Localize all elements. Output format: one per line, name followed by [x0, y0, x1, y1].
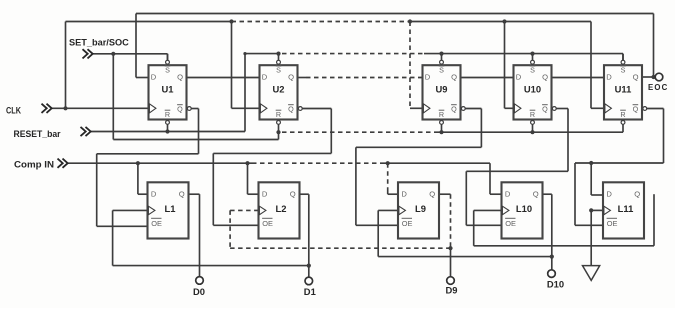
flip-flop U2	[260, 65, 298, 119]
svg-text:D: D	[516, 73, 522, 82]
svg-text:Q: Q	[633, 73, 639, 82]
wire RESET riser to S bus	[243, 52, 278, 132]
flip-flop U1	[149, 65, 187, 119]
off-page triangle symbol	[583, 266, 600, 281]
svg-text:Q: Q	[451, 104, 457, 113]
svg-text:EOC: EOC	[648, 83, 669, 92]
R-bar pin stub of U10	[531, 121, 535, 133]
wire Q of U1 to D of U2	[187, 77, 260, 79]
svg-text:U2: U2	[273, 84, 285, 95]
S-bar pin stub of U10	[531, 54, 535, 64]
wire feedback top rail (EOC node to D of U1)	[136, 14, 654, 78]
svg-text:R: R	[530, 110, 535, 119]
svg-text:D: D	[401, 189, 407, 198]
wire Comp IN line with taps to latch D inputs	[68, 162, 490, 164]
svg-text:L11: L11	[618, 203, 634, 214]
svg-text:D: D	[425, 73, 431, 82]
svg-text:R: R	[439, 110, 444, 119]
R-bar pin stub of U2	[277, 121, 281, 133]
svg-text:U1: U1	[162, 84, 174, 95]
svg-text:S: S	[530, 66, 535, 75]
wire enable of L1 from D1 rail	[113, 210, 309, 265]
flip-flop U9	[423, 65, 461, 119]
wire R bus (R of U2,U9,U10,U11)	[276, 130, 623, 134]
terminal D1	[305, 277, 313, 285]
svg-text:OE: OE	[505, 219, 516, 228]
input CLK	[6, 104, 52, 116]
svg-text:S: S	[165, 66, 170, 75]
svg-text:Q: Q	[533, 189, 539, 198]
svg-text:Comp IN: Comp IN	[14, 160, 54, 170]
node Comp IN tap L9 / dashed drop to D of L9	[386, 161, 398, 194]
svg-text:U10: U10	[524, 84, 541, 95]
wire enable of L9 from D10 rail	[378, 210, 552, 256]
svg-text:L10: L10	[516, 203, 532, 214]
S-bar pin stub of U2	[277, 54, 281, 64]
node tap on U11 Q-bar line / wire to D of L11	[589, 161, 603, 195]
wire enable of L2 dashed rail toward omitted stage	[230, 210, 450, 248]
wire CLK top bus	[66, 22, 592, 109]
svg-text:U11: U11	[615, 84, 632, 95]
wire Q of L9 to terminal D9 (dashed upper)	[439, 194, 453, 277]
R-bar pin stub of U11	[621, 121, 625, 133]
node Comp IN tap L1 / wire to D of L1	[136, 161, 148, 194]
wire Q-bar of U2 to OE of L2	[213, 107, 331, 226]
svg-text:S: S	[276, 66, 281, 75]
svg-text:R: R	[620, 110, 625, 119]
flip-flop U11	[604, 65, 642, 119]
wire Q of U11 to EOC	[642, 75, 656, 79]
svg-text:Q: Q	[451, 73, 457, 82]
svg-text:OE: OE	[151, 219, 162, 228]
svg-text:D: D	[262, 189, 268, 198]
svg-text:R: R	[165, 110, 170, 119]
input RESET_bar	[14, 127, 91, 139]
svg-text:Q: Q	[179, 189, 185, 198]
wire Q-bar of U9 to OE of L9	[356, 107, 482, 226]
S-bar pin stub of U1	[166, 54, 170, 64]
terminal D9	[447, 277, 455, 285]
wire SET_bar/SOC input to S of U1	[93, 54, 168, 60]
svg-text:D10: D10	[547, 279, 564, 290]
svg-text:U9: U9	[436, 84, 448, 95]
svg-text:Q: Q	[634, 189, 640, 198]
latch L1	[148, 182, 189, 238]
wire Q-bar of U1 to OE of L1	[97, 107, 199, 227]
node CLK bus junction U9 (dashed drop)	[408, 19, 423, 108]
svg-text:OE: OE	[262, 219, 273, 228]
latch L10	[502, 182, 543, 238]
wire S bus (S of U2,U9,U10,U11)	[276, 52, 623, 61]
wire Q of L2 to terminal D1	[300, 194, 311, 277]
latch L2	[259, 182, 300, 238]
wire Q of U10 to D of U11	[552, 77, 605, 79]
svg-text:Q: Q	[429, 189, 435, 198]
S-bar pin stub of U11	[621, 54, 625, 64]
svg-text:D: D	[262, 73, 268, 82]
svg-text:OE: OE	[607, 219, 618, 228]
svg-text:Q: Q	[177, 73, 183, 82]
node SET junction	[111, 52, 115, 56]
S-bar pin stub of U9	[440, 54, 444, 64]
svg-text:Q: Q	[288, 104, 294, 113]
svg-text:Q: Q	[542, 73, 548, 82]
wire Q-bar of U10 to OE of L10	[466, 107, 568, 226]
node CLK bus junction U10	[502, 19, 513, 108]
svg-text:L9: L9	[415, 203, 426, 214]
svg-text:CLK: CLK	[6, 106, 21, 116]
node Comp IN tap L2 / wire to D of L2	[245, 161, 258, 194]
latch L11	[603, 182, 644, 238]
wire RESET_bar input to R of U1	[91, 129, 245, 133]
input Comp IN	[14, 159, 68, 170]
svg-text:Q: Q	[290, 189, 296, 198]
latch L9	[398, 182, 439, 238]
R-bar pin stub of U9	[440, 121, 444, 133]
svg-text:Q: Q	[633, 104, 639, 113]
svg-text:L2: L2	[276, 203, 287, 214]
svg-text:Q: Q	[177, 104, 183, 113]
svg-text:D: D	[151, 73, 157, 82]
wire Q-bar of U11 to OE of L11	[575, 107, 664, 226]
wire enable of L10 from Q of L11	[474, 194, 654, 246]
wire Comp IN end drop to D of L10	[490, 163, 502, 194]
terminal EOC	[655, 73, 663, 81]
wire enable of L11 from off-page arrow	[589, 208, 603, 265]
svg-text:D1: D1	[304, 286, 316, 297]
svg-text:D: D	[606, 189, 612, 198]
svg-text:S: S	[439, 66, 444, 75]
svg-text:SET_bar/SOC: SET_bar/SOC	[69, 37, 129, 47]
svg-text:R: R	[276, 110, 281, 119]
svg-text:Q: Q	[288, 73, 294, 82]
svg-text:D: D	[505, 189, 511, 198]
svg-text:D0: D0	[193, 286, 205, 297]
input SET_bar/SOC	[69, 37, 129, 58]
svg-text:Q: Q	[542, 104, 548, 113]
wire Q of L10 to terminal D10	[543, 194, 554, 270]
svg-text:S: S	[621, 66, 626, 75]
flip-flop U10	[514, 65, 552, 119]
terminal D10	[548, 270, 556, 278]
svg-text:OE: OE	[402, 219, 413, 228]
terminal D0	[196, 277, 204, 285]
svg-text:D: D	[151, 189, 157, 198]
wire CLK drop to U11 clock	[591, 22, 604, 109]
wire Q of U2 to D of U9 (dashed continuation)	[298, 77, 425, 79]
svg-text:D: D	[606, 73, 612, 82]
wire Q of L1 to terminal D0	[189, 194, 200, 277]
wire Q of U9 to D of U10	[461, 77, 514, 79]
wire SET branch to R bus of U2..U11	[113, 54, 278, 140]
svg-text:L1: L1	[165, 203, 176, 214]
node CLK bus junction U2	[229, 19, 259, 108]
svg-text:RESET_bar: RESET_bar	[14, 129, 61, 139]
svg-text:D9: D9	[446, 285, 458, 296]
R-bar pin stub of U1	[166, 121, 170, 132]
wire CLK input to U1 clock	[52, 106, 149, 110]
